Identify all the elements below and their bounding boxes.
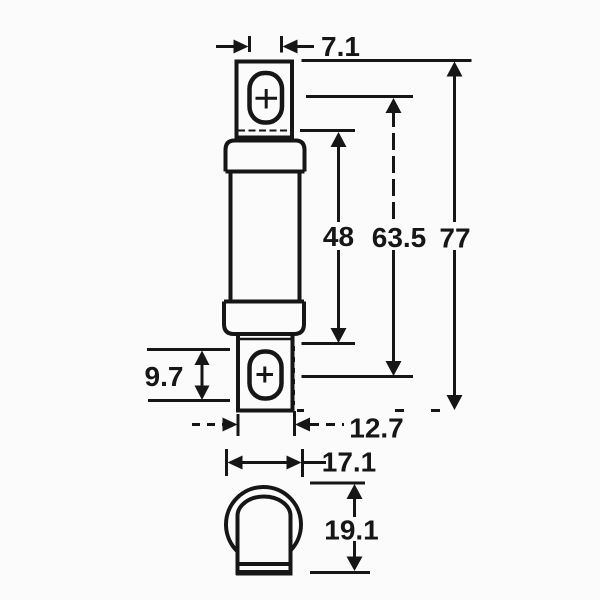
bottom tag oval slot [250, 352, 282, 399]
dimension line 63.5 [386, 98, 402, 376]
dimension 17.1 ticks arrows and leader [227, 449, 327, 477]
bottom end cap collar [224, 302, 304, 335]
svg-text:17.1: 17.1 [322, 447, 377, 478]
svg-text:9.7: 9.7 [145, 361, 184, 392]
dimension 7.1 left leader and arrow [216, 36, 250, 54]
bottom blade tag outline [238, 334, 294, 411]
svg-text:7.1: 7.1 [321, 31, 360, 62]
fuse barrel body [231, 172, 300, 302]
dimension line 48 [331, 132, 347, 343]
svg-text:63.5: 63.5 [372, 222, 427, 253]
extension line 19.1 top [310, 482, 365, 485]
extension line bottom hole centre for 63.5 [302, 375, 414, 378]
dimension line 77 [447, 62, 463, 411]
extension line bottom of collar for 48 [302, 342, 356, 345]
end view outer cap circle [226, 487, 301, 552]
extension line 9.7 bottom [148, 399, 230, 402]
svg-text:12.7: 12.7 [349, 413, 404, 444]
bottom slot cross mark [257, 367, 274, 383]
dimension 12.7 right leader and arrow [295, 411, 345, 436]
top end cap dome [226, 141, 305, 172]
dimension line 9.7 [195, 351, 210, 401]
end view chord line [240, 562, 290, 566]
top slot cross mark [256, 89, 278, 109]
end view bottom bar [236, 570, 293, 576]
dimension 12.7 left leader and arrow [192, 414, 238, 436]
extension line top of cap for 48 [300, 129, 355, 132]
end view tag tombstone [238, 497, 291, 576]
svg-text:48: 48 [323, 221, 354, 252]
dimension 7.1 right leader and arrow [282, 36, 315, 54]
extension line 9.7 top [147, 348, 230, 351]
extension dashes bottom of tag for 77 [297, 409, 440, 412]
extension line top hole centre for 63.5 [306, 95, 413, 98]
svg-text:77: 77 [439, 223, 470, 254]
extension line top of tag for 77 [302, 59, 472, 62]
extension line 19.1 bottom [310, 571, 370, 574]
top tag oval slot [250, 73, 283, 123]
dimension line 19.1 [347, 484, 363, 571]
top blade tag outline [237, 62, 293, 141]
svg-text:19.1: 19.1 [324, 515, 379, 546]
